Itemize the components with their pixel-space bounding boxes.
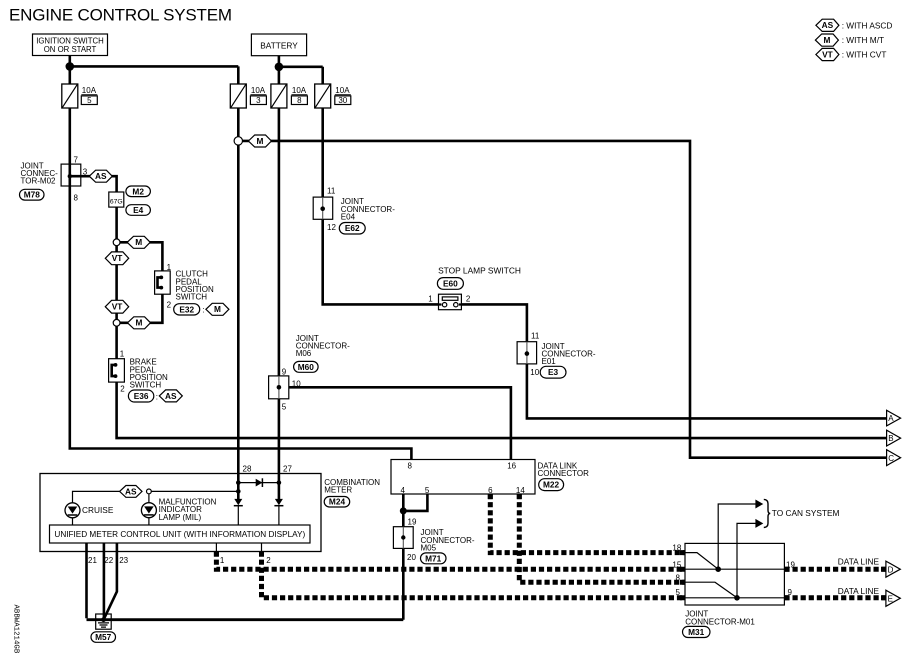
svg-text::: : [202,305,204,314]
svg-text:8: 8 [297,96,302,105]
svg-text:12: 12 [327,223,336,232]
svg-text:2: 2 [120,385,125,394]
badge M57 [91,632,116,643]
arrowhead CAN 2 [755,519,763,528]
cruise lamp [65,503,80,518]
svg-text:DATA LINE: DATA LINE [838,556,880,566]
label clutch pedal position switch [176,270,214,302]
dashed wire data link pin6 to M01 pin18 [490,494,685,553]
pin 22 meter [104,556,113,565]
svg-text:23: 23 [119,556,128,565]
node battery junction [275,63,284,72]
wire ignition feed [70,56,239,85]
wire M/T branch to arrow C [238,141,887,458]
pin 8 data link [408,461,413,470]
pin 2 clutch [167,300,172,309]
svg-text:E60: E60 [443,278,458,288]
pin 1 meter [220,556,225,565]
label cruise [82,505,114,515]
label data line D [838,556,880,566]
svg-text:5: 5 [425,486,430,495]
wire fuse3 to meter pin28 [237,108,240,474]
pin 15 M01 [672,560,681,569]
label fuse2 10A 3 [250,86,266,105]
wire battery feed [279,56,323,84]
label TO CAN SYSTEM [772,508,840,518]
svg-text:E32: E32 [179,304,194,314]
label joint connector M06 [296,334,350,358]
pin 1 brake [120,349,125,358]
hexagon VT upper [105,252,128,265]
label unified meter control unit [54,530,305,539]
svg-text:2: 2 [167,300,172,309]
badge E36 [128,390,153,402]
pin 9 M01 [788,588,793,597]
hexagon M at E32 [206,303,229,315]
badge M22 [539,479,564,491]
wire fuse8 to M06 to meter pin27 [278,108,281,474]
svg-text:AS: AS [165,391,177,401]
svg-text:M06: M06 [296,349,312,358]
svg-text:E4: E4 [133,205,144,215]
svg-text:19: 19 [408,518,417,527]
pin 4 data link [401,486,406,495]
badge M31 [683,626,711,637]
joint connector E01 box [517,342,537,364]
svg-text:: WITH M/T: : WITH M/T [842,35,884,45]
pin 21 meter [88,556,97,565]
pin 2 brake [120,385,125,394]
hexagon M clutch bottom [128,317,151,329]
label stop lamp switch [438,265,521,275]
badge E4 [126,205,150,216]
ground symbol lines [98,623,109,627]
pin 12 E04 [327,223,336,232]
svg-text:VT: VT [112,302,123,312]
brace TO CAN SYSTEM [764,499,771,527]
ignition switch box [33,34,108,56]
pin 1 stop lamp [428,295,433,304]
badge M2 [126,186,150,197]
node data link pin4 junction [400,507,407,514]
svg-text:UNIFIED METER CONTROL UNIT (WI: UNIFIED METER CONTROL UNIT (WITH INFORMA… [54,530,305,539]
fuse 10A No.5 [62,84,78,108]
node M01 dot 2 [734,595,740,601]
combination meter M24 box [40,474,321,552]
diode meter pin28 down [234,499,243,506]
node M01 dot 1 [715,566,721,572]
fuse 10A No.3 [230,84,246,108]
label combination meter [324,478,380,495]
node branch circle clutch bottom [113,319,120,326]
pin 5 M06 [282,402,287,411]
svg-text:10A: 10A [251,86,266,95]
svg-text:3: 3 [256,96,261,105]
data link connector M22 box [391,460,535,495]
svg-text:SWITCH: SWITCH [176,293,208,302]
node M02 dot [68,174,72,178]
svg-text:STOP LAMP SWITCH: STOP LAMP SWITCH [438,265,521,275]
wire meter pin28 internal [237,474,240,500]
svg-text:20: 20 [407,553,416,562]
battery box [251,34,306,56]
svg-text:DATA LINE: DATA LINE [838,586,880,596]
svg-text:19: 19 [786,560,795,569]
svg-text:C: C [888,454,894,463]
pin 2 meter [266,556,271,565]
pin 7 M02 [74,156,79,165]
label joint connector E04 [341,197,395,221]
svg-text:14: 14 [516,486,525,495]
svg-text:M: M [136,318,143,328]
pin 10 M06 [292,379,301,388]
pin 27 meter [283,464,292,473]
svg-text:: WITH ASCD: : WITH ASCD [842,20,893,30]
svg-text:10: 10 [530,368,539,377]
svg-text:11: 11 [531,331,540,340]
svg-text:ABBWA1214GB: ABBWA1214GB [12,605,20,654]
badge E3 [540,366,566,378]
wire fuse30 to E04 to stop lamp switch [323,108,439,304]
svg-text:3: 3 [83,168,88,177]
svg-text:D: D [888,565,894,574]
svg-text:AS: AS [125,486,137,496]
pin 5 M01 [676,588,681,597]
svg-text:E62: E62 [345,223,360,233]
hexagon M clutch top [127,236,150,248]
svg-text:15: 15 [672,560,681,569]
joint connector M02 box [61,164,81,186]
arrow B [887,430,901,446]
svg-text:E36: E36 [134,391,149,401]
svg-text:A: A [888,414,894,423]
label legend WITH CVT [842,50,887,60]
svg-text:VT: VT [112,253,123,263]
pin 8 M01 [676,573,681,582]
label brake pedal position switch [130,358,168,390]
MIL lamp [141,503,156,518]
pin 9 M06 [282,367,287,376]
wire M01 pin8 diagonal [685,582,737,598]
svg-text:AS: AS [822,20,834,30]
svg-text:E: E [888,594,893,603]
pin 28 meter [243,464,252,473]
svg-text:10A: 10A [292,86,307,95]
pin 3 M02 [83,168,88,177]
brake pedal position switch box [109,359,125,382]
svg-text:ON OR START: ON OR START [44,45,97,54]
label data line E [838,586,880,596]
pin 19 M01 [786,560,795,569]
node ignition junction [66,62,75,71]
badge M24 [324,497,350,508]
svg-text:: WITH CVT: : WITH CVT [842,50,887,60]
wire CAN branch 2 [737,523,756,597]
wire meter pin2 stub [261,543,263,552]
wire stop lamp switch to E01 to arrow A [461,304,887,418]
arrow E [886,590,900,606]
wire meter pin21 to ground bus M57 [87,543,404,620]
svg-text:CONNECTOR-M01: CONNECTOR-M01 [685,618,755,627]
svg-text:28: 28 [243,464,252,473]
svg-text:E04: E04 [341,212,356,221]
svg-text:7: 7 [74,156,79,165]
label E32 colon [202,305,204,314]
wire meter AS branch [73,491,239,525]
svg-text:IGNITION SWITCH: IGNITION SWITCH [36,36,104,45]
ground box M57 [96,614,112,629]
svg-text:1: 1 [220,556,225,565]
label joint connector E01 [542,342,596,366]
wire M01 pin18 diagonal [685,553,718,570]
svg-text:9: 9 [282,367,287,376]
svg-text:VT: VT [822,49,833,59]
svg-text:TOR-M02: TOR-M02 [21,177,57,186]
wire meter pin22 to ground [103,543,106,620]
node branch circle on fuse3 wire [234,137,242,145]
wire meter diode outputs to UMCU [238,506,279,525]
svg-text:5: 5 [87,96,92,105]
svg-text:16: 16 [507,461,516,470]
svg-text:M71: M71 [425,553,442,563]
wire M06 pin10 to data link pin16 [279,387,511,459]
wire fuse5 to M02 to data link pin8 [70,108,412,460]
dashed wire meter pin2 to M01 pin5 [262,552,686,598]
svg-text:5: 5 [282,402,287,411]
dashed wire data link pin14 to M01 pin8 [519,494,685,582]
label ignition switch [36,36,104,54]
svg-text:18: 18 [672,544,681,553]
pin 8 M02 [74,194,79,203]
svg-text:LAMP (MIL): LAMP (MIL) [159,513,202,522]
wire meter diode link 28-27 [238,482,279,484]
svg-text:1: 1 [167,263,172,272]
wire clutch switch loop [117,242,163,322]
badge M71 [421,553,447,564]
label joint connector M05 [421,528,475,552]
arrow D [886,561,900,577]
pin 20 M05 [407,553,416,562]
wire meter pin27 internal [278,474,281,500]
pin 1 clutch [167,263,172,272]
svg-text:AS: AS [95,171,107,181]
svg-text:M22: M22 [543,480,560,490]
pin 2 stop lamp [466,295,471,304]
label joint connector M01 [685,610,755,627]
label legend WITH M/T [842,35,884,45]
clutch pedal position switch box [155,271,171,294]
label malfunction indicator lamp [159,498,217,522]
svg-text:SWITCH: SWITCH [130,381,162,390]
svg-text:M24: M24 [329,497,346,507]
label fuse4 10A 30 [335,86,351,105]
label fuse1 10A 5 [81,86,97,105]
svg-text:5: 5 [676,588,681,597]
svg-text:6: 6 [488,486,493,495]
svg-text:M: M [214,304,221,314]
joint connector-M01 box [685,543,784,605]
svg-text:TO CAN SYSTEM: TO CAN SYSTEM [772,508,840,518]
hexagon AS legend [816,19,839,31]
svg-text:E01: E01 [542,357,557,366]
fuse 10A No.8 [271,84,287,108]
label E36 colon [156,392,158,401]
diode meter pin27 down [274,499,283,506]
pin 11 E04 [327,187,336,196]
svg-text::: : [156,392,158,401]
wire CAN branch 1 [718,504,756,569]
svg-text:M60: M60 [298,362,315,372]
svg-text:M78: M78 [24,190,41,200]
unified meter control unit box [50,525,311,543]
pin 16 data link [507,461,516,470]
pin 19 M05 [408,518,417,527]
svg-text:E3: E3 [548,367,559,377]
badge E32 [174,304,200,315]
label fuse3 10A 8 [291,86,307,105]
svg-text:30: 30 [338,96,347,105]
wire M05 pin20 to ground bus [402,548,405,619]
pin 10 E01 [530,368,539,377]
node ground junction M57 [101,617,106,622]
node branch circle clutch top [113,239,120,246]
svg-text:M: M [135,237,142,247]
pin 6 data link [488,486,493,495]
pin 18 M01 [672,544,681,553]
arrowhead CAN 1 [755,500,763,509]
badge E62 [339,223,365,235]
wire data link pin4 pin5 junction [403,494,427,527]
svg-text:10A: 10A [82,86,97,95]
pin 14 data link [516,486,525,495]
badge M78 [20,189,45,200]
label document code ABBWA1214GB [12,605,20,654]
dashed wire M01 pin19 to arrow D [784,567,886,572]
svg-text:21: 21 [88,556,97,565]
arrow C [887,450,901,466]
arrow A [887,410,901,426]
svg-text:2: 2 [266,556,271,565]
dashed wire M01 pin9 to arrow E [784,595,886,600]
label battery [260,40,298,50]
svg-text:67G: 67G [110,199,123,206]
pin 5 data link [425,486,430,495]
svg-text:M31: M31 [688,627,705,637]
67G connector box [109,192,124,207]
node meter pin28 dot lower [236,489,241,494]
svg-text:M2: M2 [132,186,144,196]
svg-text:CONNECTOR: CONNECTOR [538,469,590,478]
svg-text:2: 2 [466,295,471,304]
hexagon M on fuse3 branch [248,135,271,147]
label legend WITH ASCD [842,20,893,30]
hexagon AS at E36 [159,390,182,402]
diode meter horizontal [256,478,263,487]
pin 23 meter [119,556,128,565]
hexagon VT legend [816,48,839,60]
svg-text:METER: METER [324,486,352,495]
svg-text:M05: M05 [421,543,437,552]
hexagon AS in meter [120,486,142,498]
label data link connector [538,461,590,478]
svg-text:10: 10 [292,379,301,388]
badge E60 [437,278,463,290]
svg-text:ENGINE CONTROL SYSTEM: ENGINE CONTROL SYSTEM [9,6,232,25]
svg-text:BATTERY: BATTERY [260,40,298,50]
joint connector M06 box [269,376,289,399]
svg-text:4: 4 [401,486,406,495]
svg-text:11: 11 [327,187,336,196]
wire meter pin23 to ground [104,543,117,619]
node meter pin27 dot [277,480,282,485]
fuse 10A No.30 [315,84,331,108]
dashed wire meter pin1 to M01 pin15 [216,552,685,570]
joint connector E04 box [313,197,333,219]
node branch circle meter AS [147,489,152,494]
hexagon AS at M02 [89,170,112,182]
svg-text:1: 1 [120,349,125,358]
node meter pin28 dot upper [236,480,241,485]
svg-text:10A: 10A [335,86,350,95]
svg-text:B: B [888,434,893,443]
wire M01 pin5 to pin9 internal [685,597,784,599]
svg-text:M: M [256,136,263,146]
wire AS branch M02 to brake switch to arrow B [70,176,887,438]
hexagon M legend [815,34,838,46]
wire MIL lamp feed [148,494,150,525]
wire M01 pin15 to pin19 internal [685,568,784,570]
svg-text:22: 22 [104,556,113,565]
joint connector M05 box [393,527,413,549]
pin 11 E01 [531,331,540,340]
wire meter pin1 stub [215,543,217,552]
hexagon VT lower [105,300,128,313]
badge M60 [294,361,319,372]
svg-text:M57: M57 [95,632,112,642]
svg-text:8: 8 [408,461,413,470]
svg-text:8: 8 [676,573,681,582]
svg-text:CRUISE: CRUISE [82,505,114,515]
svg-text:9: 9 [788,588,793,597]
svg-text:M: M [823,35,830,45]
label joint connector M02 [21,162,59,186]
svg-text:1: 1 [428,295,433,304]
svg-text:27: 27 [283,464,292,473]
svg-text:8: 8 [74,194,79,203]
stop lamp switch E60 box [439,294,462,310]
